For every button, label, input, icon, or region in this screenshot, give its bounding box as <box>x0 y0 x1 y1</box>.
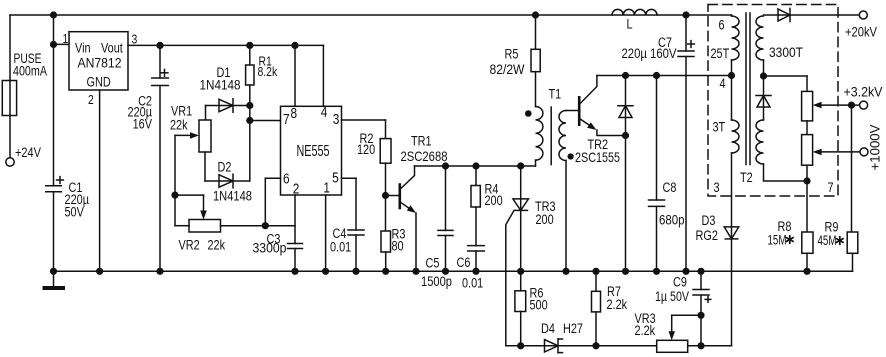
svg-text:3300p: 3300p <box>253 240 287 256</box>
svg-text:+1000V: +1000V <box>867 125 882 171</box>
svg-text:200: 200 <box>485 193 503 209</box>
svg-text:22k: 22k <box>208 237 226 253</box>
svg-text:7: 7 <box>828 180 834 196</box>
svg-text:3: 3 <box>132 31 138 47</box>
svg-text:45M: 45M <box>818 232 837 248</box>
svg-text:T2: T2 <box>740 170 753 186</box>
svg-text:0.01: 0.01 <box>330 239 351 255</box>
svg-text:C6: C6 <box>457 255 471 271</box>
svg-text:22k: 22k <box>170 117 188 133</box>
svg-text:RG2: RG2 <box>696 228 718 244</box>
svg-text:Vin: Vin <box>75 40 91 56</box>
svg-text:2SC1555: 2SC1555 <box>575 150 620 166</box>
svg-text:80: 80 <box>392 238 404 254</box>
svg-text:+24V: +24V <box>15 145 42 161</box>
svg-text:VR2: VR2 <box>179 237 200 253</box>
svg-text:220µ 160V: 220µ 160V <box>622 46 677 61</box>
svg-text:2SC2688: 2SC2688 <box>401 149 448 164</box>
svg-text:GND: GND <box>87 74 111 90</box>
svg-text:+20kV: +20kV <box>845 24 878 39</box>
svg-text:AN7812: AN7812 <box>78 55 122 71</box>
svg-text:0.01: 0.01 <box>462 275 483 291</box>
svg-text:1N4148: 1N4148 <box>200 77 241 93</box>
svg-text:C9: C9 <box>673 274 687 290</box>
svg-text:4: 4 <box>720 76 726 92</box>
svg-text:3: 3 <box>333 111 340 128</box>
svg-text:+3.2kV: +3.2kV <box>844 84 883 100</box>
svg-text:1: 1 <box>323 179 330 196</box>
svg-text:1N4148: 1N4148 <box>213 188 252 203</box>
svg-text:H27: H27 <box>563 321 583 337</box>
svg-text:5: 5 <box>332 169 339 186</box>
svg-text:3T: 3T <box>713 119 726 135</box>
svg-text:C5: C5 <box>426 255 440 271</box>
svg-text:D2: D2 <box>218 159 232 175</box>
svg-text:1: 1 <box>63 31 69 47</box>
svg-text:50V: 50V <box>65 204 85 220</box>
svg-text:15M: 15M <box>768 232 787 248</box>
svg-text:7: 7 <box>283 111 290 128</box>
svg-text:2: 2 <box>88 92 94 108</box>
svg-text:D4: D4 <box>541 321 555 337</box>
svg-text:16V: 16V <box>133 116 153 132</box>
svg-text:TR1: TR1 <box>411 133 432 149</box>
svg-text:NE555: NE555 <box>297 142 330 160</box>
svg-text:R5: R5 <box>505 46 519 62</box>
svg-text:25T: 25T <box>711 46 730 62</box>
svg-text:D3: D3 <box>702 213 716 229</box>
svg-text:400mA: 400mA <box>13 63 48 79</box>
svg-text:2.2k: 2.2k <box>607 297 628 313</box>
svg-text:C8: C8 <box>663 180 677 196</box>
svg-text:1µ 50V: 1µ 50V <box>655 289 690 305</box>
svg-text:3300T: 3300T <box>769 44 803 60</box>
svg-text:120: 120 <box>357 142 375 158</box>
svg-text:1500p: 1500p <box>421 274 452 289</box>
svg-text:82/2W: 82/2W <box>490 61 526 77</box>
svg-text:Vout: Vout <box>101 40 123 56</box>
svg-text:500: 500 <box>530 297 548 313</box>
svg-text:L: L <box>627 16 633 32</box>
svg-text:200: 200 <box>536 212 554 228</box>
svg-text:8.2k: 8.2k <box>258 64 278 80</box>
svg-text:2: 2 <box>293 180 300 197</box>
svg-text:680p: 680p <box>659 213 684 228</box>
svg-text:2.2k: 2.2k <box>635 323 656 339</box>
svg-text:4: 4 <box>321 104 328 121</box>
svg-text:T1: T1 <box>549 86 562 102</box>
svg-text:6: 6 <box>719 17 725 33</box>
svg-text:8: 8 <box>291 105 298 122</box>
svg-text:6: 6 <box>283 170 290 187</box>
svg-text:3: 3 <box>714 180 720 196</box>
